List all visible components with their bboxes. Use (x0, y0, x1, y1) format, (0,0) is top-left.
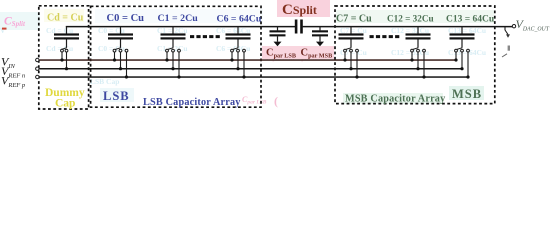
svg-text:C7 = Cu: C7 = Cu (336, 14, 372, 25)
svg-text:LSB Cap: LSB Cap (90, 77, 119, 86)
svg-text:LSB: LSB (103, 89, 130, 103)
svg-text:C6 = 64Cu: C6 = 64Cu (217, 14, 262, 25)
svg-text:C13 = 64Cu: C13 = 64Cu (446, 15, 495, 25)
svg-text:Cap: Cap (55, 98, 75, 110)
svg-text:C1 = 2Cu: C1 = 2Cu (158, 13, 199, 24)
svg-text:(: ( (274, 94, 278, 108)
svg-text:C12 = 32Cu: C12 = 32Cu (387, 14, 434, 24)
svg-text:Cd = Cu: Cd = Cu (47, 13, 84, 24)
svg-text:CSplit: CSplit (282, 2, 317, 18)
svg-text:MSB: MSB (452, 87, 482, 101)
svg-text:Cd = Cu: Cd = Cu (46, 44, 73, 53)
svg-text:MSB Capacitor Array: MSB Capacitor Array (345, 94, 445, 105)
svg-text:C0 = Cu: C0 = Cu (107, 13, 145, 24)
svg-text:LSB Capacitor Array: LSB Capacitor Array (143, 97, 241, 108)
